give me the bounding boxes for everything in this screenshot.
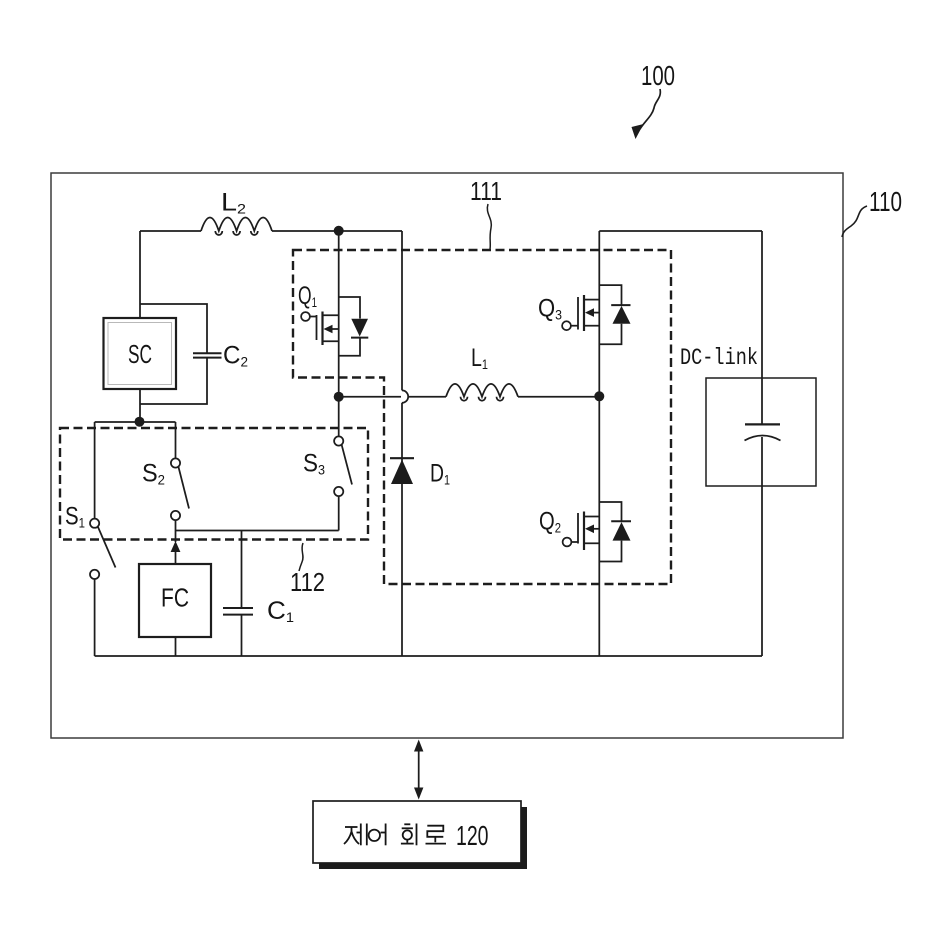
control circuit box 120 bbox=[313, 801, 521, 863]
node junction L1 / Q2 / Q3 bbox=[594, 391, 604, 401]
switch S2 bbox=[171, 458, 189, 520]
outer system box 110 bbox=[51, 173, 843, 738]
wire SC top lead bbox=[139, 231, 141, 318]
svg-text:Q2: Q2 bbox=[539, 508, 561, 536]
svg-text:100: 100 bbox=[641, 60, 675, 91]
leader for 110 bbox=[842, 206, 867, 237]
svg-text:Q3: Q3 bbox=[538, 295, 562, 323]
wire 112 input rail bbox=[95, 421, 176, 423]
svg-text:120: 120 bbox=[456, 820, 489, 851]
wire S2 bottom to link rail bbox=[175, 520, 177, 530]
wire Q2 branch vertical bbox=[598, 396, 600, 656]
wire D1 branch vertical upper bbox=[401, 231, 403, 390]
switch S1 bbox=[90, 519, 116, 579]
FC box bbox=[139, 564, 211, 637]
transistor Q3 bbox=[562, 295, 599, 331]
arrow FC output bbox=[171, 531, 181, 565]
svg-text:FC: FC bbox=[161, 583, 189, 613]
wire S3 bottom lead bbox=[338, 496, 340, 530]
body diode of Q3 bbox=[599, 285, 630, 344]
inductor L1 bbox=[446, 384, 518, 397]
wire FC bottom lead bbox=[175, 637, 177, 656]
svg-text:DC-link: DC-link bbox=[680, 345, 758, 371]
hangul 로 bbox=[426, 826, 447, 844]
wire D1 branch vertical lower bbox=[401, 403, 403, 656]
svg-text:S2: S2 bbox=[142, 460, 165, 488]
wire top rail right of L2 bbox=[272, 230, 402, 232]
node junction Q1 / L1 bbox=[334, 392, 344, 402]
wire S1 bottom lead bbox=[94, 579, 96, 656]
transistor Q2 bbox=[563, 512, 600, 551]
control circuit box 120 shadow bbox=[319, 807, 527, 869]
wire top rail left bbox=[140, 230, 201, 232]
wire Q1 node to S3 bbox=[338, 397, 340, 437]
svg-text:L2: L2 bbox=[221, 189, 246, 217]
DC-link box bbox=[706, 378, 816, 486]
svg-text:C2: C2 bbox=[223, 342, 248, 370]
wire Q1 branch vertical bbox=[338, 231, 340, 397]
wire L1 left segment bbox=[339, 396, 401, 398]
leader for 111 bbox=[487, 204, 491, 249]
wire Q3 branch vertical bbox=[598, 231, 600, 396]
inductor L2 bbox=[201, 218, 272, 232]
wire C2 branch bottom bbox=[140, 358, 207, 404]
wire SC bottom lead bbox=[139, 389, 141, 422]
leader arrow for 100 bbox=[632, 89, 661, 139]
wire top rail right bbox=[599, 230, 762, 232]
SC box bbox=[104, 318, 177, 389]
hangul 회 bbox=[401, 824, 417, 846]
node junction SC bottom bbox=[135, 417, 145, 427]
leader for 112 bbox=[299, 543, 303, 571]
wire L1 right segment bbox=[518, 396, 599, 398]
svg-text:112: 112 bbox=[290, 567, 325, 597]
wire C1 top lead bbox=[241, 531, 243, 608]
wire S1 top lead bbox=[94, 422, 96, 519]
svg-text:Q1: Q1 bbox=[298, 282, 317, 310]
capacitor C1 bbox=[223, 608, 253, 615]
svg-text:SC: SC bbox=[128, 339, 152, 369]
svg-text:110: 110 bbox=[869, 186, 902, 217]
capacitor C2 bbox=[193, 353, 222, 357]
node junction L2 / Q1 branch bbox=[334, 226, 344, 236]
wire C1 bottom lead bbox=[241, 615, 243, 656]
wire hop of D1 branch over L1 wire bbox=[402, 390, 408, 402]
switch S3 bbox=[334, 436, 352, 496]
svg-text:L1: L1 bbox=[471, 344, 488, 372]
double arrow to control circuit bbox=[414, 740, 423, 800]
hangul 제 bbox=[344, 824, 367, 846]
wire DC-link bottom lead bbox=[761, 437, 763, 656]
dashed converter box 111 bbox=[293, 250, 671, 584]
body diode of Q2 bbox=[599, 502, 631, 562]
wire L1 left segment 2 bbox=[409, 396, 447, 398]
hangul 어 bbox=[369, 824, 386, 846]
svg-text:S1: S1 bbox=[65, 503, 85, 531]
capacitor DC-link bbox=[745, 424, 781, 440]
transistor Q1 bbox=[301, 312, 339, 346]
svg-text:C1: C1 bbox=[267, 597, 294, 625]
wire S2 top lead bbox=[175, 422, 177, 458]
svg-text:D1: D1 bbox=[430, 460, 450, 488]
svg-text:111: 111 bbox=[470, 176, 502, 206]
wire bottom rail bbox=[95, 655, 762, 657]
body diode of Q1 bbox=[339, 297, 369, 356]
svg-text:S3: S3 bbox=[303, 450, 325, 478]
wire link rail S2-S3 bbox=[176, 530, 339, 532]
dashed switch box 112 bbox=[60, 428, 368, 540]
wire C2 branch top bbox=[140, 304, 207, 353]
wire DC-link feed down bbox=[761, 231, 763, 424]
label 제어 회로 120 bbox=[344, 820, 489, 851]
diode D1 bbox=[390, 458, 414, 484]
